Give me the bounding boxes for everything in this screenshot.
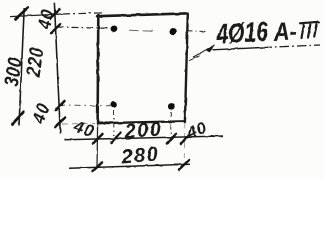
tick at left edge (93, 134, 103, 144)
dimension line 40/220/40 (left inner) (54, 3, 60, 133)
concrete section outline (97, 13, 188, 123)
callout shelf line (212, 48, 263, 50)
dimension line 300 (left outer) (19, 8, 24, 126)
svg-text:A-: A- (272, 17, 298, 47)
right edge extension below section (183, 123, 186, 165)
svg-text:200: 200 (123, 118, 163, 143)
rebar dot bottom-left (110, 101, 118, 109)
tick at right rebar (167, 134, 176, 144)
callout class III with overline (300, 22, 319, 38)
svg-text:40: 40 (34, 7, 58, 32)
tick top edge (50, 9, 60, 19)
rebar dot top-left (110, 25, 119, 33)
leader line to rebar callout (193, 48, 209, 57)
tick 300 bottom (12, 112, 24, 125)
bottom dimension line 280 (69, 164, 190, 168)
tick 280 left (93, 163, 103, 172)
axis line through top rebars (57, 27, 112, 28)
extension below bottom-left rebar (113, 110, 116, 136)
svg-text:220: 220 (21, 45, 48, 79)
bottom edge extension dash (62, 122, 95, 125)
top edge extension line (10, 14, 62, 17)
rebar dot top-right (168, 27, 177, 36)
leader arrowhead (207, 45, 215, 52)
extension below bottom-right rebar (170, 112, 172, 135)
left edge extension below section (96, 124, 99, 169)
bottom dimension line 40/200/40 (65, 136, 224, 140)
tick bottom rebar level (55, 101, 64, 111)
axis line through bottom rebars (59, 104, 111, 107)
tick at left rebar (111, 133, 121, 143)
tick top rebar level (51, 24, 61, 34)
tick at right edge (181, 135, 189, 145)
tick 300 top (16, 8, 29, 20)
tick bottom edge (55, 118, 65, 128)
svg-text:280: 280 (120, 143, 161, 168)
svg-text:4Ø16: 4Ø16 (215, 17, 269, 50)
rebar dot bottom-right (167, 102, 176, 110)
tick 280 right (179, 160, 189, 170)
